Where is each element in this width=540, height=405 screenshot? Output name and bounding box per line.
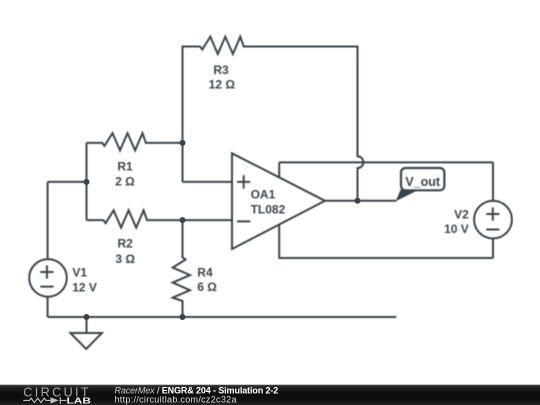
svg-text:LAB: LAB	[67, 396, 92, 405]
svg-text:R3: R3	[213, 63, 229, 77]
svg-text:2 Ω: 2 Ω	[115, 174, 135, 188]
svg-text:12 Ω: 12 Ω	[209, 78, 236, 92]
svg-text:3 Ω: 3 Ω	[115, 252, 135, 266]
svg-text:R4: R4	[197, 266, 213, 280]
svg-text:OA1: OA1	[251, 188, 276, 202]
svg-text:12 V: 12 V	[72, 280, 97, 294]
svg-text:TL082: TL082	[251, 202, 286, 216]
svg-text:V_out: V_out	[405, 175, 441, 189]
svg-text:R1: R1	[117, 159, 133, 173]
svg-text:V1: V1	[72, 266, 87, 280]
svg-text:R2: R2	[118, 237, 134, 251]
svg-text:V2: V2	[454, 207, 469, 221]
svg-text:6 Ω: 6 Ω	[197, 280, 217, 294]
svg-text:http://circuitlab.com/cz2c32a: http://circuitlab.com/cz2c32a	[115, 395, 237, 405]
svg-text:10 V: 10 V	[444, 222, 469, 236]
